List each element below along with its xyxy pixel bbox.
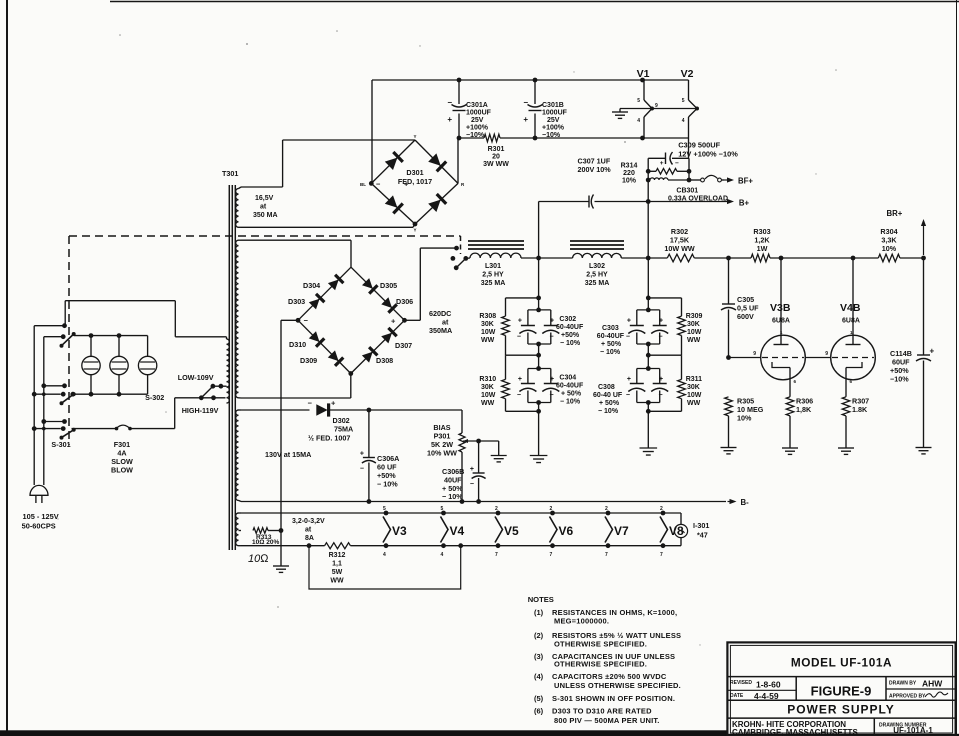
tube heater V7 xyxy=(605,517,613,543)
svg-text:S-301: S-301 xyxy=(51,440,70,449)
svg-text:BR+: BR+ xyxy=(887,209,903,218)
svg-text:60-40 UF: 60-40 UF xyxy=(593,392,623,399)
svg-text:1,8K: 1,8K xyxy=(796,405,812,414)
svg-text:30K: 30K xyxy=(481,384,494,391)
transformer T301 130V secondary xyxy=(236,410,239,500)
wire heater top rail xyxy=(241,512,681,514)
diode bridge D303-D310 xyxy=(298,267,351,320)
svg-text:D309: D309 xyxy=(300,356,317,365)
svg-text:3W WW: 3W WW xyxy=(483,161,509,168)
svg-text:4-4-59: 4-4-59 xyxy=(754,691,779,701)
resistor R314 xyxy=(648,170,656,172)
title block xyxy=(727,642,955,736)
wire lamp bottom rail xyxy=(70,393,147,395)
svg-text:C301B: C301B xyxy=(542,102,564,109)
svg-text:+: + xyxy=(550,318,554,325)
svg-text:− 10%: − 10% xyxy=(560,340,581,347)
svg-text:5: 5 xyxy=(441,506,444,512)
svg-text:10W: 10W xyxy=(687,392,702,399)
svg-text:+ 50%: + 50% xyxy=(561,391,582,398)
svg-text:D305: D305 xyxy=(380,281,397,290)
svg-text:4: 4 xyxy=(383,552,386,558)
svg-text:(5): (5) xyxy=(534,694,544,703)
wire heater loop xyxy=(309,546,461,589)
svg-text:V4B: V4B xyxy=(840,302,861,314)
svg-text:200V 10%: 200V 10% xyxy=(578,165,612,174)
svg-text:16,5V: 16,5V xyxy=(255,195,274,202)
svg-text:10W WW: 10W WW xyxy=(664,244,695,253)
resistor R306 xyxy=(786,397,794,416)
capacitor C309 xyxy=(648,157,665,159)
wire S-301 to primary xyxy=(64,301,66,326)
wire B+ node column xyxy=(647,158,649,258)
svg-text:D304: D304 xyxy=(303,281,320,290)
svg-text:4: 4 xyxy=(682,118,685,124)
grid dashes V3B xyxy=(762,357,804,359)
svg-text:*47: *47 xyxy=(697,531,708,540)
wire top rail to D301 minus xyxy=(371,80,373,183)
wire R308 branch xyxy=(506,297,539,299)
wire AC line L1 xyxy=(33,326,35,485)
wire heater bottom rail xyxy=(241,545,325,547)
svg-text:D306: D306 xyxy=(396,297,413,306)
svg-text:D303: D303 xyxy=(288,297,305,306)
svg-text:I-301: I-301 xyxy=(693,521,709,530)
svg-text:105 - 125V: 105 - 125V xyxy=(23,512,59,521)
wire B+ output xyxy=(650,201,731,203)
svg-text:− 10%: − 10% xyxy=(560,399,581,406)
svg-text:5W: 5W xyxy=(332,569,343,576)
svg-text:C302: C302 xyxy=(559,316,576,323)
svg-text:WW: WW xyxy=(687,400,701,407)
AC plug xyxy=(30,485,48,495)
svg-text:350 MA: 350 MA xyxy=(253,212,278,219)
svg-text:OTHERWISE SPECIFIED.: OTHERWISE SPECIFIED. xyxy=(554,639,647,648)
diode D302 xyxy=(241,409,310,411)
fuse F301 xyxy=(72,428,117,430)
wire B- rail xyxy=(241,501,726,503)
transformer T301 HV secondary xyxy=(236,240,239,398)
resistor R302 xyxy=(667,254,694,262)
svg-text:UNLESS OTHERWISE SPECIFIED.: UNLESS OTHERWISE SPECIFIED. xyxy=(554,681,681,690)
svg-text:R311: R311 xyxy=(686,376,702,383)
svg-text:+: + xyxy=(470,466,474,473)
svg-text:(6): (6) xyxy=(534,707,544,716)
svg-text:CAPACITORS ±20% 500 WVDC: CAPACITORS ±20% 500 WVDC xyxy=(552,672,667,681)
svg-text:MEG=1000000.: MEG=1000000. xyxy=(554,617,609,626)
wire main rail 2 xyxy=(621,257,667,259)
resistor R308 xyxy=(502,316,510,335)
svg-text:30K: 30K xyxy=(687,384,700,391)
svg-text:T301: T301 xyxy=(222,169,238,178)
circuit breaker CB301 xyxy=(650,178,668,180)
ground heater CT xyxy=(619,109,621,113)
tube heater V5 xyxy=(495,517,503,543)
svg-text:Y: Y xyxy=(413,134,416,139)
svg-text:10W: 10W xyxy=(687,329,702,336)
svg-text:60-40UF: 60-40UF xyxy=(597,333,625,340)
svg-text:L301: L301 xyxy=(485,263,501,270)
svg-text:−: − xyxy=(470,481,474,488)
svg-text:7: 7 xyxy=(660,552,663,558)
svg-text:9: 9 xyxy=(753,351,756,357)
svg-text:20: 20 xyxy=(492,154,500,161)
svg-text:BL: BL xyxy=(360,182,366,187)
svg-text:9: 9 xyxy=(825,351,828,357)
wire main rail 5 xyxy=(900,257,924,259)
svg-text:R312: R312 xyxy=(329,552,346,559)
svg-text:325 MA: 325 MA xyxy=(481,280,506,287)
wire lamp top rail xyxy=(74,335,148,337)
svg-text:WW: WW xyxy=(481,337,495,344)
svg-text:+: + xyxy=(447,115,452,124)
svg-text:3,2-0-3,2V: 3,2-0-3,2V xyxy=(292,518,325,525)
svg-text:(1): (1) xyxy=(534,608,544,617)
svg-text:−: − xyxy=(675,160,679,167)
svg-text:+100%: +100% xyxy=(542,125,565,132)
svg-text:R308: R308 xyxy=(479,313,496,320)
svg-text:CAMBRIDGE, MASSACHUSETTS: CAMBRIDGE, MASSACHUSETTS xyxy=(732,728,858,736)
svg-text:4: 4 xyxy=(441,552,444,558)
svg-text:60-40UF: 60-40UF xyxy=(556,324,584,331)
svg-text:130V at 15MA: 130V at 15MA xyxy=(265,450,311,459)
svg-text:1-8-60: 1-8-60 xyxy=(756,680,781,690)
tube heater V4 xyxy=(441,517,449,543)
svg-text:600V: 600V xyxy=(737,312,754,321)
svg-text:− 10%: − 10% xyxy=(442,492,463,501)
ground filter right xyxy=(640,447,658,449)
svg-text:V2: V2 xyxy=(681,68,694,80)
svg-text:V6: V6 xyxy=(559,524,574,538)
svg-text:S-301 SHOWN IN OFF POSITION: S-301 SHOWN IN OFF POSITION. xyxy=(552,694,675,703)
wire main rail 3 xyxy=(694,257,751,259)
wire grid node xyxy=(726,355,731,360)
svg-text:−: − xyxy=(517,334,521,341)
resistor R305 xyxy=(725,397,733,416)
resistor R304 xyxy=(878,254,900,262)
wire BF+ output xyxy=(724,179,731,181)
svg-text:L302: L302 xyxy=(589,263,605,270)
svg-text:10Ω 20%: 10Ω 20% xyxy=(252,539,279,546)
svg-text:R314: R314 xyxy=(621,163,638,170)
svg-text:−: − xyxy=(626,392,630,399)
svg-text:+ 50%: + 50% xyxy=(601,341,622,348)
ground R306 xyxy=(782,447,798,449)
svg-text:V3: V3 xyxy=(392,524,407,538)
svg-text:2,5 HY: 2,5 HY xyxy=(482,272,504,279)
svg-text:25V: 25V xyxy=(547,117,560,124)
svg-text:30K: 30K xyxy=(481,321,494,328)
wire heater supply rail xyxy=(459,137,484,139)
svg-text:5: 5 xyxy=(637,98,640,104)
svg-text:FED, 1017: FED, 1017 xyxy=(398,177,432,186)
svg-text:−10%: −10% xyxy=(890,375,909,384)
svg-text:WW: WW xyxy=(481,400,495,407)
capacitor C301B xyxy=(534,80,536,104)
svg-text:− 10%: − 10% xyxy=(598,408,619,415)
svg-text:½ FED. 1007: ½ FED. 1007 xyxy=(308,434,350,443)
svg-text:+50%: +50% xyxy=(561,332,580,339)
svg-text:2,5 HY: 2,5 HY xyxy=(586,272,608,279)
resistor R310 xyxy=(502,379,510,398)
tube V3B xyxy=(761,335,806,380)
svg-text:R301: R301 xyxy=(488,146,505,153)
svg-text:V4: V4 xyxy=(450,524,465,538)
ground filter left xyxy=(530,455,548,457)
svg-text:C309 500UF: C309 500UF xyxy=(678,141,720,150)
svg-text:800 PIV — 500MA PER UNIT.: 800 PIV — 500MA PER UNIT. xyxy=(554,716,660,725)
pilot lamp 1 xyxy=(90,336,92,357)
ground R307 xyxy=(838,447,854,449)
wire HV winding top to bridge xyxy=(241,239,351,241)
svg-text:UF-101A-1: UF-101A-1 xyxy=(893,726,933,735)
switch S-302 xyxy=(199,395,204,400)
svg-text:−: − xyxy=(659,334,663,341)
svg-text:−: − xyxy=(550,334,554,341)
svg-text:2: 2 xyxy=(495,506,498,512)
ground P301 wiper xyxy=(491,455,507,457)
capacitor C302 xyxy=(528,309,551,311)
svg-text:WW: WW xyxy=(330,578,344,585)
svg-text:(4): (4) xyxy=(534,672,544,681)
wire R309 branch xyxy=(648,297,681,299)
svg-text:NOTES: NOTES xyxy=(528,595,554,604)
resistor R301 xyxy=(484,134,500,142)
svg-text:1000UF: 1000UF xyxy=(466,110,492,117)
pilot lamp 2 xyxy=(118,336,120,357)
svg-text:DRAWN BY: DRAWN BY xyxy=(889,681,917,687)
svg-text:10Ω: 10Ω xyxy=(248,553,269,565)
svg-text:+: + xyxy=(660,160,664,167)
svg-text:+: + xyxy=(404,180,409,189)
svg-text:B-: B- xyxy=(741,498,750,507)
wire BR+ output xyxy=(923,222,925,255)
wire B- output xyxy=(728,501,734,503)
svg-text:+: + xyxy=(930,347,935,356)
wire L301-L302 node to B+ line xyxy=(538,202,540,259)
svg-text:Y: Y xyxy=(413,228,416,233)
svg-text:30K: 30K xyxy=(687,321,700,328)
svg-text:1000UF: 1000UF xyxy=(542,110,568,117)
switch S-301 xyxy=(62,323,67,328)
svg-text:BLOW: BLOW xyxy=(111,466,133,475)
pilot lamp 3 xyxy=(147,336,149,357)
svg-text:60-40UF: 60-40UF xyxy=(556,383,584,390)
svg-text:DATE: DATE xyxy=(730,693,744,699)
inductor L301 xyxy=(468,240,524,242)
diode bridge D301 xyxy=(371,140,415,183)
svg-text:V1: V1 xyxy=(637,68,650,80)
svg-text:−: − xyxy=(447,98,452,107)
resistor R311 xyxy=(678,379,686,398)
wire D301 plus to rail xyxy=(457,138,459,183)
svg-text:+: + xyxy=(627,376,631,383)
capacitor C308 xyxy=(637,368,660,370)
svg-text:5: 5 xyxy=(682,98,685,104)
svg-text:CB301: CB301 xyxy=(676,188,698,195)
svg-text:4: 4 xyxy=(637,118,640,124)
svg-text:10W: 10W xyxy=(481,329,496,336)
resistor R313 xyxy=(253,528,268,534)
capacitor C306A xyxy=(368,410,370,458)
svg-text:OTHERWISE SPECIFIED.: OTHERWISE SPECIFIED. xyxy=(554,660,647,669)
resistor R303 xyxy=(751,254,770,262)
wire bias top line xyxy=(369,409,462,411)
svg-text:V7: V7 xyxy=(614,524,629,538)
wire filter column right top xyxy=(647,258,649,310)
wire tube link xyxy=(805,357,830,359)
svg-text:BF+: BF+ xyxy=(738,177,753,186)
svg-text:−: − xyxy=(517,392,521,399)
svg-text:R310: R310 xyxy=(479,376,496,383)
svg-text:12V +100% −10%: 12V +100% −10% xyxy=(678,150,738,159)
capacitor C114B xyxy=(923,258,925,355)
svg-text:10% WW: 10% WW xyxy=(427,449,457,458)
svg-text:REVISED: REVISED xyxy=(730,680,752,686)
svg-text:FIGURE-9: FIGURE-9 xyxy=(811,684,872,699)
svg-text:10%: 10% xyxy=(882,244,897,253)
svg-text:−: − xyxy=(360,466,364,473)
svg-text:C301A: C301A xyxy=(466,102,488,109)
svg-text:7: 7 xyxy=(495,552,498,558)
svg-text:325 MA: 325 MA xyxy=(585,280,610,287)
ground R305 xyxy=(721,447,737,449)
wire filter column left top xyxy=(538,258,540,310)
svg-text:+: + xyxy=(360,451,364,458)
wire filter mid node right xyxy=(648,354,681,356)
capacitor C305 xyxy=(728,258,730,304)
svg-text:25V: 25V xyxy=(471,117,484,124)
svg-text:+: + xyxy=(523,115,528,124)
wire fuse to S-302 xyxy=(174,398,176,429)
ground bridge minus xyxy=(273,565,289,567)
tube V4B xyxy=(831,335,876,380)
wire main rail 4 xyxy=(770,257,878,259)
svg-text:350MA: 350MA xyxy=(429,326,452,335)
wire filter bottom right xyxy=(648,410,681,412)
tube heater V6 xyxy=(550,517,558,543)
wire 16.5V winding bottom to bridge xyxy=(241,226,413,228)
svg-text:D303 TO D310 ARE RATED: D303 TO D310 ARE RATED xyxy=(552,707,652,716)
svg-text:D310: D310 xyxy=(289,340,306,349)
svg-text:D308: D308 xyxy=(376,356,393,365)
svg-text:2: 2 xyxy=(605,506,608,512)
capacitor C306B xyxy=(478,441,480,473)
svg-text:−: − xyxy=(626,334,630,341)
wire bridge minus to ground xyxy=(281,319,298,321)
capacitor C307 xyxy=(539,201,589,203)
capacitor C303 xyxy=(637,309,660,311)
svg-text:WW: WW xyxy=(687,337,701,344)
svg-text:10%: 10% xyxy=(622,178,637,185)
chassis boundary dashed xyxy=(69,235,461,237)
svg-text:POWER SUPPLY: POWER SUPPLY xyxy=(787,703,895,717)
svg-text:R309: R309 xyxy=(686,313,703,320)
svg-text:V5: V5 xyxy=(504,524,519,538)
svg-text:10%: 10% xyxy=(737,414,752,423)
wire top rail xyxy=(372,79,689,81)
svg-text:7: 7 xyxy=(550,552,553,558)
transformer T301 16.5V secondary xyxy=(236,189,239,228)
svg-text:8A: 8A xyxy=(305,535,314,542)
inductor L302 xyxy=(570,240,624,242)
svg-text:+: + xyxy=(550,376,554,383)
wire AC line L2 xyxy=(43,337,45,485)
svg-text:HIGH-119V: HIGH-119V xyxy=(182,406,219,415)
svg-text:10W: 10W xyxy=(481,392,496,399)
svg-text:−: − xyxy=(376,180,381,189)
capacitor C304 xyxy=(528,368,551,370)
page border xyxy=(6,0,8,731)
svg-text:C304: C304 xyxy=(559,375,576,382)
svg-text:1,1: 1,1 xyxy=(332,561,342,568)
wire 16.5V winding top to bridge xyxy=(241,186,283,188)
svg-text:S-302: S-302 xyxy=(145,393,164,402)
svg-text:+: + xyxy=(518,376,522,383)
svg-text:−: − xyxy=(308,399,313,408)
svg-text:1.8K: 1.8K xyxy=(852,405,868,414)
svg-text:+100%: +100% xyxy=(466,125,489,132)
svg-text:D301: D301 xyxy=(406,168,423,177)
transformer T301 primary winding xyxy=(224,336,227,338)
svg-text:−: − xyxy=(304,316,309,325)
svg-text:at: at xyxy=(305,527,312,534)
svg-text:−: − xyxy=(550,392,554,399)
svg-text:220: 220 xyxy=(623,170,635,177)
svg-text:+: + xyxy=(331,399,336,408)
svg-text:2: 2 xyxy=(660,506,663,512)
svg-text:(2): (2) xyxy=(534,631,544,640)
svg-text:C308: C308 xyxy=(598,384,615,391)
svg-text:+ 50%: + 50% xyxy=(599,400,620,407)
wire filter mid node left xyxy=(506,354,539,356)
resistor R312 xyxy=(325,543,351,549)
svg-text:−: − xyxy=(523,98,528,107)
svg-text:6U8A: 6U8A xyxy=(842,318,860,325)
tube heater V8 xyxy=(660,517,668,543)
svg-text:LOW-109V: LOW-109V xyxy=(178,373,214,382)
svg-text:B+: B+ xyxy=(739,199,750,208)
svg-text:at: at xyxy=(260,204,267,211)
svg-text:7: 7 xyxy=(605,552,608,558)
wire filter bottom left xyxy=(506,410,539,412)
potentiometer P301 xyxy=(459,433,465,452)
svg-text:+: + xyxy=(659,318,663,325)
svg-text:5: 5 xyxy=(383,506,386,512)
lamp I-301 xyxy=(680,513,682,525)
svg-text:MODEL UF-101A: MODEL UF-101A xyxy=(791,656,892,670)
svg-text:APPROVED BY: APPROVED BY xyxy=(889,694,926,700)
wire HV winding bottom to bridge xyxy=(241,397,351,399)
ground C114B xyxy=(916,447,932,449)
svg-text:50-60CPS: 50-60CPS xyxy=(22,522,56,531)
svg-text:+: + xyxy=(391,317,396,326)
transformer T301 heater secondary xyxy=(236,513,239,546)
svg-text:+: + xyxy=(627,318,631,325)
svg-text:−: − xyxy=(659,392,663,399)
svg-text:C303: C303 xyxy=(602,325,619,332)
svg-text:1W: 1W xyxy=(757,244,768,253)
svg-text:AHW: AHW xyxy=(922,679,943,689)
wire heater center tap xyxy=(620,108,697,110)
svg-text:+: + xyxy=(659,376,663,383)
svg-text:+: + xyxy=(518,318,522,325)
tube heater V3 xyxy=(383,517,391,543)
svg-text:− 10%: − 10% xyxy=(600,349,621,356)
resistor R309 xyxy=(678,316,686,335)
scan speckles xyxy=(119,34,121,36)
wire 620DC output xyxy=(405,319,421,321)
